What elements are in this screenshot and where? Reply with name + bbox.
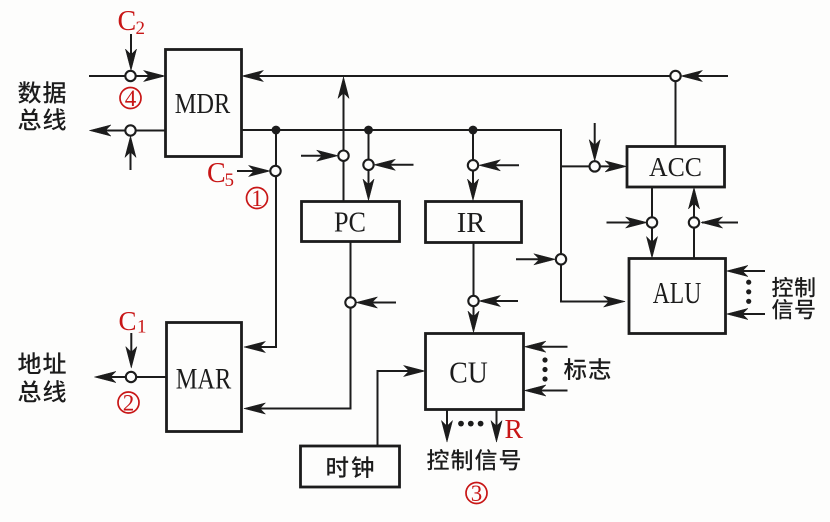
register MAR [167, 323, 242, 432]
gate circle on bus-to-ALU path [556, 254, 566, 264]
label: control signals below CU (kong zhi xin hao) [427, 449, 520, 470]
control arrow C1 into gate circle 2 [126, 333, 137, 368]
flag signal arrow into CU right (lower) [524, 385, 567, 396]
wire: data-bus input line into MDR (left, y=76) [89, 70, 165, 81]
svg-text:3: 3 [471, 481, 483, 506]
control arrow into ALU-ACC gate circle [701, 217, 738, 228]
junction dot: bus to PC branch [364, 126, 373, 135]
gate circle on ALU-to-ACC path [689, 217, 699, 227]
gate circle on MAR output (marked 2) [126, 372, 136, 382]
wire: vertical from top gate down to ACC top [675, 81, 677, 146]
flag signal arrow into CU right (upper) [524, 341, 567, 352]
register ACC [627, 147, 725, 188]
label C5 (red) [207, 158, 234, 191]
gate circle marked 1 (MDR to MAR path) [270, 166, 280, 176]
gate circle on MDR output [125, 125, 135, 135]
wire: MAR output to address bus with left arrow [94, 371, 166, 382]
circled number 1 (red) [247, 186, 268, 211]
svg-text:CU: CU [449, 355, 488, 390]
svg-text:IR: IR [457, 208, 486, 239]
wire: ACC down to ALU (left pair) [646, 187, 657, 258]
svg-text:C: C [118, 6, 137, 37]
control arrow C5 into gate circle 1 [237, 165, 270, 176]
register MDR [166, 50, 242, 157]
label: control signals right of ALU (kong zhi xin hao) [772, 277, 814, 320]
gate circle on PC input [363, 160, 373, 170]
wire: ALU up to ACC (right pair) [688, 187, 699, 258]
svg-text:C: C [119, 306, 137, 336]
svg-text:1: 1 [251, 186, 263, 211]
register PC [302, 202, 400, 242]
block CU (control unit) [426, 334, 524, 410]
wire: PC down through gate to MAR right side (lower) [244, 242, 351, 415]
gate circle on PC-up path [338, 151, 348, 161]
horizontal ellipsis dots (CU outputs) [458, 421, 483, 427]
block ALU [629, 259, 726, 334]
gate circle on ACC input [590, 161, 600, 171]
wire: bus down into IR top [467, 130, 478, 201]
wire: bus down through gate 1 to MAR right side (upper) [244, 130, 276, 353]
control arrow into IR input gate [479, 160, 519, 171]
control arrow into IR-CU gate circle [479, 295, 518, 306]
control arrow into ACC-ALU gate circle [607, 217, 648, 228]
svg-text:2: 2 [136, 18, 146, 39]
junction dot: bus to IR branch [469, 126, 478, 135]
wire: bus down into PC top [363, 130, 374, 201]
svg-text:2: 2 [123, 390, 135, 415]
wire: clock output to CU left [378, 365, 426, 446]
label: data bus (shu ju zong xian) [18, 81, 65, 130]
gate circle on MDR input (marked 4) [125, 71, 135, 81]
control signal arrow into ALU right (upper) [726, 265, 765, 276]
gate circle on IR input [468, 160, 478, 170]
svg-text:ACC: ACC [649, 152, 702, 182]
control arrow into PC-up gate circle [301, 150, 338, 161]
CU output arrow down (right, marked R) [491, 410, 502, 442]
svg-text:4: 4 [125, 86, 137, 111]
vertical ellipsis dots (CU flags) [542, 357, 547, 381]
control arrow down into ACC input gate [589, 123, 600, 161]
wire: IR down to CU top [468, 243, 479, 333]
control arrow from right into ACC-top gate circle [681, 70, 728, 81]
block clock (shi zhong) [301, 446, 400, 487]
junction dot: bus to MAR branch [272, 126, 281, 135]
circled number 4 (red) [120, 86, 141, 111]
label: flags (biao zhi) [564, 358, 610, 380]
register IR [426, 202, 522, 243]
svg-text:5: 5 [225, 170, 235, 191]
label C2 (red) [118, 6, 146, 39]
gate circle on PC-to-MAR path [345, 297, 355, 307]
CU output arrow down (left) [441, 410, 452, 442]
control arrow into PC-MAR gate circle [356, 297, 396, 308]
wire: PC up to top line with up arrow [338, 77, 349, 201]
gate circle above ACC [670, 71, 680, 81]
wire: data-bus output line from MDR (left, y=130.5) [89, 125, 165, 136]
svg-text:1: 1 [137, 317, 147, 338]
label: address bus (di zhi zong xian) [18, 352, 66, 402]
svg-text:R: R [505, 413, 524, 444]
wire: branch from bus to ACC input gate, arrow into ACC [561, 161, 627, 172]
control arrow up into output gate circle [125, 136, 136, 170]
label C1 (red) [119, 306, 147, 338]
control signal arrow into ALU right (lower) [726, 308, 765, 319]
gate circle on IR-to-CU path [468, 296, 478, 306]
svg-text:MAR: MAR [176, 364, 232, 396]
circled number 2 (red) [118, 390, 139, 415]
svg-text:C: C [207, 158, 226, 189]
svg-text:ALU: ALU [653, 276, 702, 310]
circled number 3 (red) [466, 481, 487, 506]
wire: bus gate down and right into ALU left [561, 265, 625, 308]
control arrow into ALU-input gate circle [516, 254, 555, 265]
control arrow C2 into gate circle 4 [125, 34, 136, 71]
svg-text:MDR: MDR [175, 89, 231, 120]
wire: top line from ACC gate to MDR right (y=76) with arrow into MDR [242, 70, 671, 81]
vertical ellipsis dots (ALU control signals) [746, 280, 751, 304]
gate circle on ACC-to-ALU path [647, 217, 657, 227]
control arrow into PC input gate [374, 159, 414, 170]
svg-text:PC: PC [334, 208, 366, 239]
wire: internal data bus from MDR right, corner down at x=561 [242, 130, 561, 254]
label R (red) [505, 413, 524, 444]
